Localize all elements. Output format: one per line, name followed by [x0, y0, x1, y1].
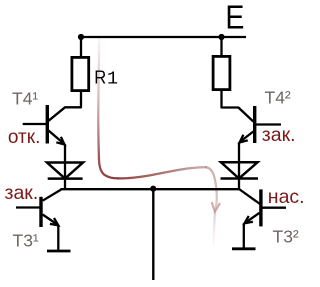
- transistor T4-2 base bar: [253, 106, 256, 143]
- wire: resistor to T4-2 collector: [222, 90, 254, 122]
- transistor T3-1 base bar: [39, 197, 42, 227]
- transistor T4-2 emitter with arrow: [240, 132, 254, 143]
- transistor T3-2 base lead: [261, 207, 286, 209]
- svg-text:1: 1: [107, 69, 118, 90]
- svg-text:T4¹: T4¹: [12, 89, 38, 109]
- svg-text:зак.: зак.: [262, 124, 296, 146]
- annotation arrow (red fading curve): [98, 38, 219, 245]
- svg-text:T3²: T3²: [273, 227, 299, 247]
- transistor T3-1 base lead: [16, 206, 41, 208]
- transistor T4-1 base bar: [46, 105, 49, 144]
- wire: T4-2 emitter to diode through to collector: [238, 142, 240, 189]
- wire: T3-2 emitter terminal: [243, 223, 245, 249]
- svg-text:отк.: отк.: [8, 126, 41, 148]
- resistor (right): [213, 56, 230, 89]
- transistor T4-1 base lead: [23, 123, 47, 125]
- resistor R1: [72, 57, 89, 90]
- wire: T4-1 emitter to diode and through to middle wire: [64, 144, 66, 189]
- diode VD2 (right): [221, 162, 259, 178]
- transistor T4-1 emitter with arrow: [49, 131, 65, 145]
- wire: R1 to T4-1 collector: [49, 91, 82, 121]
- svg-text:E: E: [225, 0, 244, 36]
- node: left rail junction: [78, 34, 84, 40]
- transistor T3-2 base bar: [259, 189, 262, 226]
- wire: rail to R1: [80, 37, 82, 56]
- transistor T3-1 collector: [43, 190, 61, 201]
- diode VD1 (left): [47, 163, 83, 179]
- transistor T3-2 collector: [239, 189, 260, 204]
- node: middle junction: [150, 186, 156, 192]
- node: right rail junction: [218, 34, 224, 40]
- svg-text:нас.: нас.: [268, 186, 305, 208]
- transistor T3-1 emitter with arrow: [43, 215, 59, 226]
- svg-text:T3¹: T3¹: [13, 231, 39, 251]
- wire: rail to right resistor: [220, 37, 222, 56]
- terminal bar T3-2: [232, 247, 256, 250]
- middle wire: [61, 188, 240, 190]
- svg-text:зак.: зак.: [5, 182, 39, 204]
- wire: T3-1 emitter terminal: [57, 225, 59, 251]
- wire: center tap down: [152, 189, 154, 280]
- svg-text:R: R: [94, 67, 106, 88]
- transistor T4-2 base lead: [255, 123, 281, 125]
- terminal bar T3-1: [47, 250, 71, 253]
- transistor T3-2 emitter with arrow: [245, 213, 260, 224]
- power rail E (top wire): [81, 36, 246, 38]
- svg-text:T4²: T4²: [265, 87, 291, 107]
